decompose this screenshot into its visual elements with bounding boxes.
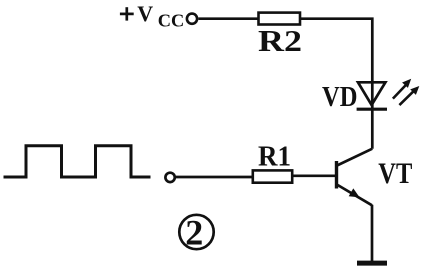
svg-text:VT: VT bbox=[378, 157, 412, 190]
wire input to R1 bbox=[176, 176, 253, 179]
transistor collector bbox=[337, 149, 372, 166]
label +Vcc plus sign bbox=[120, 7, 134, 20]
resistor R2 bbox=[259, 13, 301, 25]
LED VD triangle bbox=[358, 82, 385, 105]
transistor emitter with arrow bbox=[337, 185, 372, 206]
LED light arrow 2 bbox=[399, 86, 419, 105]
svg-text:VD: VD bbox=[322, 82, 358, 113]
square wave input signal bbox=[4, 146, 151, 177]
ground bbox=[357, 261, 387, 266]
resistor R1 bbox=[253, 170, 292, 182]
wire top rail left bbox=[198, 17, 258, 20]
figure number circle bbox=[179, 215, 213, 249]
label Vcc bbox=[137, 1, 184, 31]
LED light arrow 1 bbox=[393, 79, 411, 99]
wire top rail right and down to LED/transistor bbox=[301, 19, 373, 149]
wire R1 to base bbox=[293, 174, 336, 177]
wire emitter to ground bbox=[371, 205, 374, 261]
svg-text:CC: CC bbox=[158, 11, 185, 31]
svg-text:V: V bbox=[137, 1, 153, 26]
svg-text:R1: R1 bbox=[258, 141, 291, 173]
svg-text:R2: R2 bbox=[258, 23, 302, 58]
input terminal bbox=[165, 173, 174, 182]
svg-text:2: 2 bbox=[185, 212, 203, 252]
transistor VT base bar bbox=[335, 161, 338, 189]
terminal Vcc bbox=[187, 14, 197, 24]
LED cathode bar bbox=[357, 108, 387, 111]
